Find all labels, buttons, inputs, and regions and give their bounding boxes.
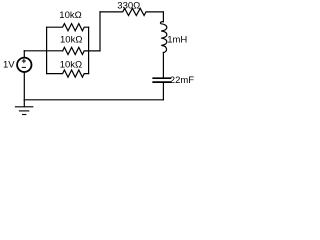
wire right bus bbox=[88, 27, 90, 73]
wire source bottom stem bbox=[23, 72, 25, 100]
svg-text:10kΩ: 10kΩ bbox=[59, 10, 81, 21]
wire ground stem bbox=[23, 100, 25, 107]
svg-text:330Ω: 330Ω bbox=[117, 1, 140, 12]
resistor R4 330 with top rail bbox=[100, 8, 163, 15]
wire source top stem bbox=[23, 51, 25, 57]
svg-text:10kΩ: 10kΩ bbox=[60, 60, 82, 71]
wire drop to inductor bbox=[162, 12, 164, 22]
resistor R2 10k bbox=[63, 47, 100, 54]
wire riser to top rail bbox=[99, 12, 101, 51]
wire bottom return bbox=[24, 99, 163, 101]
wire capacitor to bottom bbox=[162, 83, 164, 100]
resistor R3 10k bbox=[47, 70, 89, 77]
wire left bus bbox=[46, 27, 48, 73]
inductor L1 1mH bbox=[160, 22, 166, 53]
svg-text:1V: 1V bbox=[3, 59, 15, 70]
capacitor C1 22mF bbox=[153, 77, 170, 79]
wire inductor to capacitor bbox=[162, 53, 164, 78]
resistor R1 10k bbox=[47, 24, 89, 31]
svg-text:1mH: 1mH bbox=[167, 35, 187, 46]
ground bbox=[15, 107, 32, 115]
voltage source V1 bbox=[17, 58, 31, 72]
wire top feed from source to resistor network bbox=[24, 50, 62, 52]
svg-text:22mF: 22mF bbox=[170, 75, 194, 86]
svg-text:10kΩ: 10kΩ bbox=[60, 35, 82, 46]
